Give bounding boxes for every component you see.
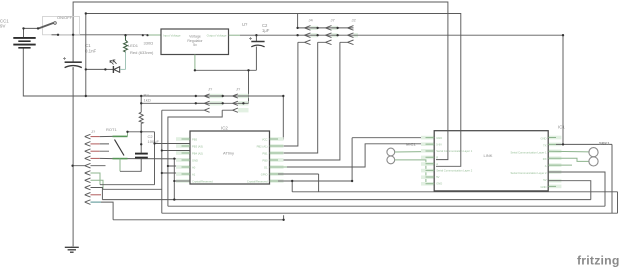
switch S1 lower contact (52, 34, 59, 36)
pin 8 (85, 185, 103, 199)
IC1 module box (434, 125, 565, 191)
wire regulator output rail (229, 34, 240, 36)
wire left vertical gnd (72, 35, 74, 247)
pin 6 (85, 171, 91, 176)
wire cap column (140, 132, 142, 172)
pin 2 (85, 142, 91, 147)
capacitor C1 (63, 57, 82, 70)
voltage regulator U1 box (161, 29, 229, 55)
connector J6 (222, 87, 283, 113)
wire mic bottom to IC1 pin8 (395, 160, 435, 184)
wire IC1 pin1 to IC2 pin7 column (352, 138, 434, 181)
IC2 pin highlight fills (176, 137, 284, 183)
svg-text:D1: D1 (264, 166, 268, 170)
switch S1 body (43, 17, 80, 35)
wire IC2 pin6 net (278, 174, 319, 192)
IC1 left pin stubs (426, 138, 435, 184)
wire regulator input green (148, 34, 161, 36)
svg-text:5-9V: 5-9V (436, 143, 442, 147)
svg-text:ON/OFF: ON/OFF (57, 15, 73, 20)
svg-text:Crystal/Reserved: Crystal/Reserved (192, 180, 213, 184)
speaker rings SPK1 (589, 141, 610, 166)
svg-text:GND: GND (541, 185, 547, 189)
svg-text:PB0: PB0 (262, 159, 268, 163)
wire IC1 pin7 loop (548, 181, 591, 200)
IC1 pin8 stub (548, 185, 556, 187)
pin 7 (85, 178, 91, 183)
svg-text:MIC1: MIC1 (406, 142, 416, 147)
wire bus y213.2 (162, 110, 618, 213)
svg-text:1μF: 1μF (262, 28, 270, 33)
wire LED branch vertical (85, 14, 87, 97)
svg-text:Serial Communication Layer 2: Serial Communication Layer 2 (511, 171, 548, 175)
ground symbol (65, 246, 79, 252)
wire bus y206.2 (168, 205, 605, 207)
wire rail1 tail inside IC1 (436, 130, 448, 160)
svg-text:A0: A0 (192, 166, 196, 170)
wire bus y191.8 (292, 192, 617, 213)
svg-text:5V: 5V (436, 175, 439, 179)
wire battery negative down to rail (23, 48, 72, 96)
wire IC1 pin6 loop (548, 172, 605, 206)
svg-text:LINK: LINK (484, 153, 493, 158)
svg-text:PB1: PB1 (262, 152, 268, 156)
svg-text:R: R (436, 156, 438, 160)
wire IC1 pin4 to speaker (548, 158, 589, 161)
svg-text:9V: 9V (0, 24, 5, 29)
wire C2 drop (255, 35, 257, 70)
svg-text:A1: A1 (192, 173, 196, 177)
wire stubs rows 2 3 (100, 144, 109, 151)
left connector J1 (73, 129, 114, 220)
svg-text:GND: GND (436, 182, 442, 186)
capacitor C2 (249, 37, 265, 47)
svg-text:Input Voltage: Input Voltage (163, 34, 181, 38)
wire gnd rail (73, 95, 284, 97)
svg-text:Serial Communication Layer 1: Serial Communication Layer 1 (436, 149, 473, 153)
svg-text:TX: TX (543, 143, 547, 147)
resistor R2 330 (124, 35, 128, 52)
rotary encoder ROT1 (106, 127, 128, 171)
IC1 right pin stubs (548, 138, 572, 166)
svg-text:U?: U? (242, 22, 248, 27)
svg-text:ATtiny: ATtiny (223, 151, 234, 156)
svg-text:PB4 (A2): PB4 (A2) (192, 152, 203, 156)
svg-text:RX: RX (543, 157, 547, 161)
svg-text:Red (633nm): Red (633nm) (130, 50, 154, 55)
wire mic top to IC1 pin3 (395, 151, 435, 154)
wire battery top (24, 28, 39, 38)
wire C2b drop (248, 70, 250, 103)
svg-text:A: A (436, 162, 438, 166)
svg-text:Serial Communication Layer 1: Serial Communication Layer 1 (511, 150, 548, 154)
wire IC2 right pin7 drop (291, 181, 293, 192)
svg-text:IC2: IC2 (221, 126, 228, 131)
connector J5 (162, 87, 223, 113)
IC1 pin highlight fills (421, 136, 561, 189)
pin 5 (73, 163, 106, 168)
connector J7 (318, 18, 338, 45)
svg-text:ROT1: ROT1 (106, 127, 117, 132)
svg-text:Output Voltage: Output Voltage (207, 34, 227, 38)
wire bus y199.6 (102, 159, 590, 200)
svg-text:5V: 5V (543, 178, 546, 182)
svg-text:1kΩ: 1kΩ (144, 97, 151, 102)
svg-text:VCC: VCC (262, 138, 268, 142)
IC2 microcontroller box (190, 126, 270, 185)
svg-text:GND: GND (192, 159, 198, 163)
svg-text:SPK1: SPK1 (599, 141, 610, 146)
wire IC2 pin5 left (168, 165, 190, 167)
pin 9 (85, 193, 91, 198)
svg-text:LED1: LED1 (128, 43, 139, 48)
connector pin fills J trio (311, 26, 359, 38)
svg-text:PB5: PB5 (192, 138, 198, 142)
wire second top rail (86, 14, 461, 131)
wire mid row2 (141, 102, 248, 104)
wire LED cathode up (125, 52, 127, 69)
svg-text:GPIO: GPIO (261, 173, 268, 177)
wire encoder top net (128, 131, 155, 133)
wire IC2 pin6 left (162, 172, 190, 174)
battery VCC1 (13, 38, 35, 48)
wire switch output to regulator (58, 34, 148, 36)
wire IC2 pin3 left (162, 150, 190, 152)
resistor R1 1k (139, 96, 143, 132)
svg-text:Serial Communication Layer 2: Serial Communication Layer 2 (436, 169, 473, 173)
wire IC2 pin7 net (278, 180, 352, 182)
microphone rings MIC1 (387, 142, 416, 164)
wire red jog 1 (100, 135, 113, 137)
wire IC2 pin2 left (155, 143, 191, 145)
svg-text:PB3 (A3): PB3 (A3) (192, 145, 203, 149)
svg-text:IC1: IC1 (558, 125, 565, 130)
wire IC1 pin3 to speaker (548, 150, 589, 153)
connector J2 (340, 18, 358, 45)
svg-text:GND: GND (541, 137, 547, 141)
switch S1 lever (38, 23, 54, 29)
wire IC2 pin4 left from encoder (128, 158, 191, 160)
svg-text:fritzing: fritzing (577, 254, 620, 268)
pin 1 (85, 134, 91, 139)
wire red jog 4 (100, 157, 113, 159)
wire bus y189.3 (103, 188, 162, 190)
svg-text:PB2 (A1): PB2 (A1) (257, 145, 268, 149)
wire gnd row1 to IC2 pin1 (277, 96, 283, 139)
wire gnd link (195, 69, 257, 71)
wire J trio row1 feed (298, 14, 354, 28)
svg-text:GND: GND (436, 136, 442, 140)
svg-text:A: A (545, 164, 547, 168)
IC2 right pin stubs (270, 139, 288, 181)
capacitor C3 100uF (135, 154, 148, 158)
pin 10 (85, 200, 91, 205)
wire bus y184.7 (100, 132, 155, 185)
wire bus y219.8 (113, 215, 284, 220)
wire IC1 pin2 to right frame (556, 143, 612, 145)
wire top rail from switch to right (73, 2, 448, 131)
wire J2 pin3 to IC2 pin4 (278, 42, 340, 160)
wire regulator ground pin (194, 55, 196, 71)
svg-text:5v: 5v (193, 43, 197, 47)
wire rail2 tail inside IC1 (436, 130, 461, 166)
pin 3 (85, 149, 91, 154)
LED LED1 (105, 60, 125, 73)
connector J4 (298, 18, 318, 45)
svg-text:Crystal/Reserved: Crystal/Reserved (247, 180, 268, 184)
IC2 left pin stubs (182, 139, 191, 174)
svg-text:0.1nF: 0.1nF (85, 49, 97, 54)
svg-text:330Ω: 330Ω (144, 41, 154, 46)
wire IC2 pin5 net to IC1 pin2 (287, 144, 434, 167)
wire LED feed (86, 68, 106, 70)
wire J6 pin3 loop (168, 110, 222, 206)
wire encoder bottom loop (120, 170, 142, 172)
pin 4 (85, 156, 91, 161)
wire J7 pin3 to IC2 pin3 (277, 42, 318, 153)
wire J4 pin3 to IC2 pin2 (277, 42, 298, 146)
IC2 left pin7 wire (174, 180, 190, 182)
